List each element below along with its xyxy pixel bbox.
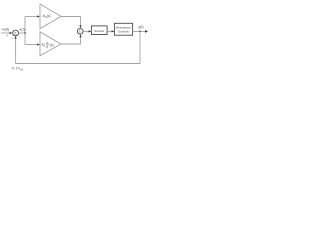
wire A2 output to summer S2 [61,37,81,44]
wire branch to amp A2 [25,44,38,46]
svg-text:+w(t): +w(t) [1,27,9,31]
wire branch vertical [24,17,26,45]
background [0,0,150,76]
wire input to summer [1,32,11,34]
arrowhead up into S1 [15,36,17,39]
svg-text:Σ: Σ [79,30,81,34]
svg-text:Messsystem: Messsystem [116,26,132,30]
arrowhead into B1 [89,30,92,32]
arrowhead into summer S1 [10,32,13,34]
output arrowhead [145,30,148,33]
wire S2 to block B1 [83,30,89,32]
wire branch to amp A1 [25,16,38,18]
block B1 [91,26,107,35]
wire feedback bottom [16,63,140,65]
svg-text:(s): (s) [50,43,54,47]
wire B1 to block B2 [107,30,113,32]
svg-text:Strecke: Strecke [94,29,105,33]
arrowhead into B2 [112,30,115,32]
arrowhead into amp A2 [37,43,40,45]
svg-text:y(t): y(t) [138,25,143,29]
svg-text:Σ: Σ [14,31,16,35]
svg-text:Dynamik: Dynamik [118,29,129,33]
block B2 [114,23,132,35]
wire feedback down [139,31,141,63]
wire summer to branch node [19,32,26,34]
svg-text:e(t): e(t) [19,27,24,31]
svg-text:+: + [6,34,8,38]
svg-text:−: − [11,36,13,40]
svg-text:dt: dt [46,44,49,48]
arrowhead down into S2 [79,25,81,28]
node feedback tap junction [139,31,141,33]
summing junction S2 [77,28,83,34]
wire feedback up to summer S1 [15,38,17,64]
wire A1 output to summer S2 [61,17,81,27]
arrowhead up into S2 [79,34,81,37]
wire B2 to output [133,30,147,32]
amplifier A2 (bottom triangle) [40,32,61,56]
value label kB d/dt (s) [42,40,54,48]
summing junction S1 [13,30,19,36]
amplifier A1 (top triangle) [40,4,61,29]
arrowhead into amp A1 [37,15,40,17]
node branch junction [24,32,26,34]
